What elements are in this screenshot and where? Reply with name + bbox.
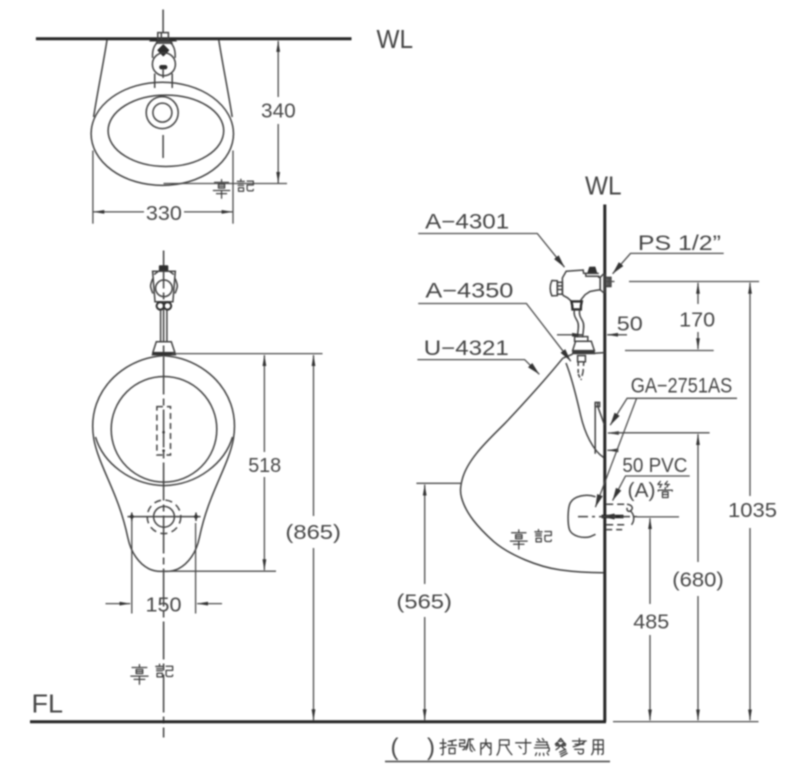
svg-text:WL: WL: [585, 170, 622, 200]
extension line (pipe level / 485): [637, 516, 679, 518]
PVC (A) pipe (dashed): [606, 504, 634, 529]
dimension 170: [679, 283, 715, 349]
dimension (680): [672, 434, 724, 720]
extension line (front bottom): [164, 570, 277, 572]
extension line 565 top: [416, 482, 461, 484]
dimension 50: [557, 314, 643, 336]
svg-text:(565): (565): [396, 592, 452, 614]
outlet (front view): [128, 500, 201, 534]
hook marks on wall: [607, 433, 617, 450]
svg-text:150: 150: [146, 594, 182, 616]
extension line (spud level): [625, 350, 714, 352]
svg-text:340: 340: [261, 101, 296, 123]
wall line (side view): [603, 205, 606, 722]
baseline right of wall: [613, 721, 759, 723]
label FL: [32, 689, 64, 719]
urinal U-4321 body (front view): [93, 356, 235, 572]
spreader (dashed, front view): [157, 407, 171, 455]
hanger bracket GA-2751AS: [595, 402, 604, 453]
svg-text:330: 330: [146, 203, 182, 225]
urinal plan view body: [91, 40, 233, 185]
watermark 1: [213, 179, 253, 198]
label 50 PVC (A)管: [613, 455, 690, 502]
svg-text:GA−2751AS: GA−2751AS: [631, 375, 733, 398]
svg-text:A−4301: A−4301: [425, 211, 509, 234]
dimension 1035: [728, 283, 777, 721]
urinal U-4321 profile (side view): [461, 353, 605, 573]
watermark 2: [131, 664, 173, 684]
label A-4301: [418, 211, 564, 268]
coupling nuts (front view): [157, 302, 172, 309]
svg-text:50: 50: [617, 314, 643, 336]
wall line WL (top view): [36, 37, 352, 40]
svg-text:518: 518: [248, 455, 281, 477]
svg-text:PS 1/2”: PS 1/2”: [638, 232, 721, 255]
svg-text:A−4350: A−4350: [425, 279, 513, 302]
floor line FL: [30, 720, 606, 723]
spud A-4350 (front view): [151, 342, 176, 356]
svg-text:FL: FL: [32, 689, 64, 719]
watermark 3: [510, 530, 551, 550]
pipe centerline: [578, 516, 639, 518]
label GA-2751AS: [595, 375, 737, 508]
flush valve A-4301 (side view): [550, 267, 611, 310]
dimension 330: [93, 151, 233, 225]
svg-text:(865): (865): [285, 522, 341, 544]
svg-text:U−4321: U−4321: [424, 337, 509, 360]
supply pipe A-4350 (side view): [572, 310, 596, 380]
dimension (565): [396, 485, 452, 721]
flush valve A-4301 (front view): [151, 265, 178, 302]
supply pipe (front view): [161, 310, 167, 342]
svg-text:WL: WL: [377, 24, 414, 54]
svg-text:1035: 1035: [728, 500, 777, 522]
svg-text:(: (: [391, 734, 399, 761]
label U-4321: [417, 337, 539, 374]
label WL (top): [377, 24, 414, 54]
extension line (hook level / 680): [613, 432, 710, 434]
svg-text:): ): [427, 734, 435, 761]
trap outlet bump (side view): [568, 495, 595, 537]
dimension 340: [261, 41, 296, 183]
extension line (inlet level): [606, 281, 760, 283]
dimension 150: [106, 521, 223, 616]
note: dimensions in parentheses are for reference: [385, 734, 610, 762]
extension line (front top): [172, 353, 323, 355]
label WL (side): [585, 170, 622, 200]
label A-4350: [418, 279, 571, 361]
dimension 518: [248, 355, 281, 570]
svg-text:170: 170: [679, 310, 715, 332]
dimension 485: [633, 518, 669, 720]
dimension (865): [285, 355, 341, 720]
centerline (front view): [163, 251, 165, 738]
svg-text:(680): (680): [672, 570, 724, 592]
svg-text:50 PVC: 50 PVC: [622, 455, 687, 477]
svg-text:(A): (A): [628, 480, 656, 502]
svg-text:485: 485: [633, 612, 669, 634]
centerline (plan): [162, 135, 164, 158]
flow arrow into pipe: [602, 515, 624, 518]
flush valve (plan view): [149, 10, 177, 89]
label PS 1/2": [613, 232, 724, 274]
extension line for 340: [164, 183, 288, 185]
